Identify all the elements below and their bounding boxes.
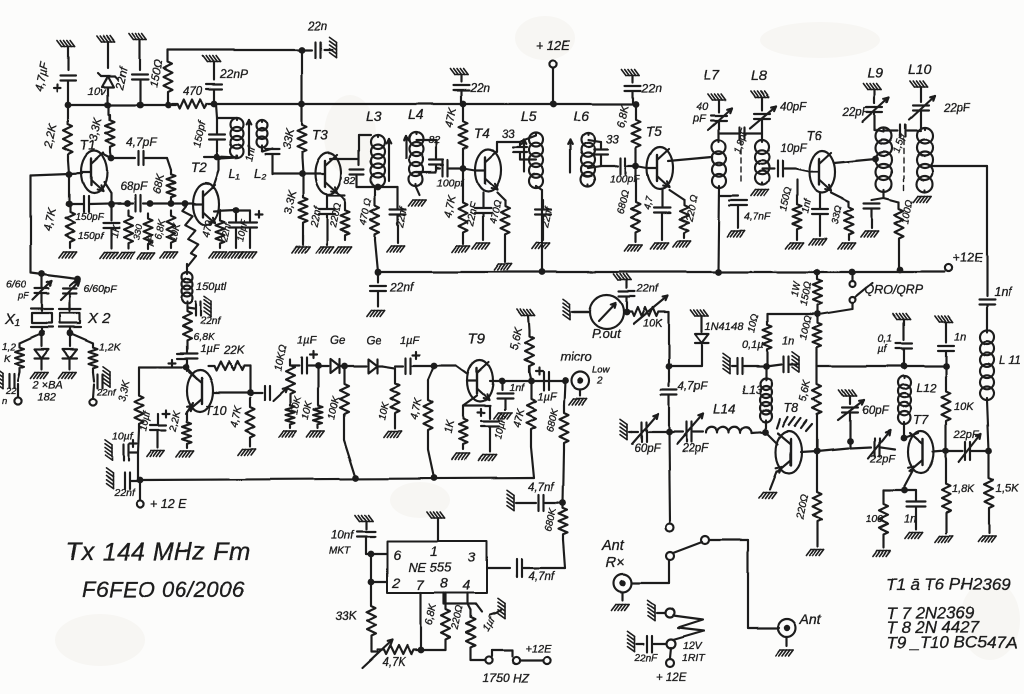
ground: [452, 246, 470, 252]
svg-text:R×: R×: [606, 555, 625, 571]
resistor 33K 555: [335, 582, 376, 652]
ground: [873, 540, 891, 556]
resistor 47K mic: [511, 381, 535, 478]
svg-text:60pF: 60pF: [862, 405, 889, 417]
IC NE555: [387, 518, 487, 593]
resistor 10K diag: [167, 206, 198, 266]
svg-text:100: 100: [866, 513, 884, 525]
svg-text:pF: pF: [692, 113, 707, 125]
ground: [839, 390, 857, 396]
svg-text:33Ω: 33Ω: [830, 205, 845, 226]
capacitor 22nf T3b: [390, 187, 410, 243]
svg-text:3,3K: 3,3K: [88, 116, 105, 143]
pot 12V RIT bottom: [667, 640, 676, 649]
meter Pout: [590, 295, 624, 341]
ground: [620, 419, 632, 439]
ground: [625, 245, 643, 251]
resistor 10Kb: [286, 395, 304, 428]
resistor 6.8K 555: [421, 593, 451, 650]
resistor 220ohm 555: [450, 604, 476, 655]
capacitor 1uF T10: [169, 343, 221, 371]
ground: [517, 309, 535, 315]
svg-text:1µF: 1µF: [200, 343, 220, 355]
svg-text:1,5p: 1,5p: [891, 133, 908, 155]
svg-text:6,8K: 6,8K: [423, 602, 439, 627]
svg-text:3,3K: 3,3K: [282, 189, 299, 216]
capacitor 33 L5: [513, 142, 527, 160]
svg-text:5,6K: 5,6K: [508, 325, 525, 350]
svg-text:4: 4: [463, 577, 471, 593]
svg-text:150pf: 150pf: [191, 119, 208, 148]
label L10: [908, 61, 932, 77]
terminal xa: [14, 384, 21, 405]
wire pin6: [368, 551, 387, 558]
svg-text:1nf: 1nf: [509, 382, 525, 394]
svg-text:4,7nf: 4,7nf: [528, 571, 555, 583]
resistor 1K: [108, 210, 132, 248]
svg-text:T9 _T10 BC547A: T9 _T10 BC547A: [886, 633, 1017, 652]
ground: [334, 247, 352, 253]
capacitor 22nf T10: [187, 296, 222, 327]
node T8 base: [752, 429, 769, 436]
arrow L3: [387, 139, 392, 181]
switch lever: [673, 536, 709, 553]
ground: [367, 310, 385, 316]
inductor L6: [573, 108, 595, 186]
dashed line L7L8: [740, 140, 742, 185]
wire T3 collector: [330, 158, 359, 160]
svg-text:6: 6: [393, 547, 401, 563]
svg-text:2: 2: [391, 575, 400, 591]
svg-text:1,8pF: 1,8pF: [732, 126, 751, 155]
wire tank bottom: [204, 154, 237, 161]
wire T6 collector: [834, 156, 879, 163]
svg-text:1µf: 1µf: [481, 615, 498, 634]
resistor 680K out: [543, 503, 567, 540]
svg-text:22nf: 22nf: [113, 487, 136, 499]
svg-text:6,8K: 6,8K: [615, 103, 632, 128]
trimmer 22pF pa: [669, 414, 709, 455]
svg-text:6/60pF: 6/60pF: [84, 283, 117, 295]
svg-text:8: 8: [440, 575, 448, 591]
wire T4 collector: [497, 142, 520, 152]
ground: [472, 243, 490, 249]
svg-text:4,7pF: 4,7pF: [678, 381, 708, 393]
ground: [751, 190, 769, 196]
svg-text:0,1µ: 0,1µ: [742, 339, 764, 351]
resistor 6.8K T5: [615, 103, 640, 169]
resistor 4.7K mod: [228, 398, 254, 446]
svg-text:1: 1: [430, 543, 438, 559]
svg-text:1,2K: 1,2K: [99, 341, 122, 353]
wire T8 out: [801, 448, 848, 452]
svg-text:40: 40: [696, 101, 709, 113]
resistor 470ohm T4: [488, 192, 509, 262]
capacitor 22nP: [206, 62, 248, 104]
wire T7 collector: [904, 433, 918, 438]
svg-text:10nf: 10nf: [331, 530, 355, 542]
svg-text:T3: T3: [312, 128, 328, 143]
resistor 10ohm: [746, 313, 814, 366]
BNC Ant: [776, 611, 822, 656]
ground: [57, 40, 75, 46]
svg-text:1N4148: 1N4148: [705, 321, 744, 333]
label +12E ant: [656, 648, 687, 684]
trimmer 6/60pF a: [6, 274, 52, 311]
ground: [316, 247, 334, 253]
capacitor 22nF T4: [464, 192, 491, 240]
svg-text:4,7K: 4,7K: [382, 657, 407, 669]
ground: [160, 252, 178, 258]
terminal +12E left: [136, 481, 187, 511]
svg-text:150Ω: 150Ω: [148, 59, 166, 89]
svg-text:1µF: 1µF: [297, 335, 317, 347]
wire rail 12v: [375, 267, 944, 276]
resistor 10K d: [377, 366, 399, 428]
svg-text:22K: 22K: [223, 345, 246, 357]
BNC Ant RX: [601, 538, 632, 610]
svg-text:10µf: 10µf: [112, 431, 134, 443]
svg-text:10KΩ: 10KΩ: [272, 344, 289, 373]
svg-text:10Ω: 10Ω: [746, 313, 761, 334]
svg-text:+ 12 E: + 12 E: [150, 497, 187, 511]
resistor 10K T7: [942, 366, 975, 454]
capacitor 82 T3: [344, 135, 364, 187]
wire xtal1 down: [39, 330, 46, 337]
capacitor 4.7nf top: [507, 482, 566, 511]
inductor L7: [712, 140, 726, 188]
svg-text:10K: 10K: [167, 221, 184, 243]
svg-text:10K: 10K: [954, 401, 974, 413]
resistor 100ohm pa: [798, 311, 821, 366]
resistor 1.2K b: [70, 333, 122, 372]
svg-text:Ge: Ge: [366, 335, 381, 347]
inductor L9: [875, 128, 892, 192]
svg-text:150Ω: 150Ω: [778, 186, 794, 212]
resistor 1K T9: [442, 414, 467, 450]
transistor T2: [191, 160, 219, 225]
svg-text:+12E: +12E: [525, 643, 552, 655]
ground: [209, 252, 227, 258]
svg-text:68pF: 68pF: [120, 179, 148, 193]
capacitor 1n T7b: [935, 316, 966, 369]
terminal +12E right: [944, 250, 983, 272]
capacitor 150pF a: [75, 196, 104, 223]
wire to T7: [881, 447, 895, 449]
svg-text:1n: 1n: [954, 331, 966, 343]
ground: [861, 231, 879, 237]
inductor L8: [755, 140, 769, 185]
svg-text:2,2K: 2,2K: [168, 409, 184, 434]
ground: [59, 372, 77, 378]
ground: [759, 471, 777, 498]
ground: [450, 69, 468, 75]
svg-text:4,7K: 4,7K: [228, 404, 244, 429]
transistor T5: [636, 124, 673, 189]
wire tank top: [216, 104, 237, 118]
transistor T1: [80, 138, 107, 193]
svg-text:100Ω: 100Ω: [900, 198, 916, 224]
svg-text:L9: L9: [868, 65, 884, 81]
wire T1 base: [31, 171, 82, 204]
resistor 6.8K T10: [183, 306, 216, 346]
svg-text:4,7pF: 4,7pF: [126, 135, 157, 149]
svg-text:3,3K: 3,3K: [116, 378, 132, 403]
capacitor 22nf osc: [219, 210, 243, 248]
wire T1 collector: [103, 154, 135, 161]
transistor T4: [463, 126, 515, 191]
capacitor 10uF T9: [478, 410, 510, 453]
resistor 150ohm: [148, 50, 172, 105]
resistor 330: [131, 213, 156, 249]
svg-text:4,7K: 4,7K: [408, 396, 424, 421]
svg-text:L7: L7: [704, 67, 721, 83]
resistor 5.6K T8: [797, 366, 821, 454]
svg-text:220Ω: 220Ω: [794, 493, 811, 521]
resistor 150ohm 1W: [789, 274, 821, 318]
capacitor 1uF b: [395, 335, 437, 374]
capacitor 10uF osc: [235, 210, 262, 248]
list T1-T6: [886, 575, 1011, 594]
svg-text:1n: 1n: [782, 335, 794, 347]
capacitor 1uF a: [297, 335, 321, 374]
capacitor 0.1uF T7: [878, 314, 912, 369]
node pa: [666, 429, 673, 436]
svg-text:T5: T5: [646, 124, 662, 139]
title Tx 144 MHz Fm: [66, 538, 250, 566]
svg-text:5,6K: 5,6K: [797, 378, 813, 403]
resistor 220ohm T8: [794, 451, 822, 530]
svg-text:T4: T4: [474, 126, 490, 141]
resistor 2.2K: [43, 105, 73, 174]
trimmer 60pF pa: [631, 414, 666, 455]
wire osc row: [66, 200, 193, 208]
wire T3 base: [272, 171, 315, 178]
trimmer 6/60pF b: [61, 279, 117, 311]
transistor T9: [467, 331, 493, 402]
capacitor 1nf right: [979, 285, 1013, 330]
svg-text:Ant: Ant: [601, 538, 625, 554]
ground: [225, 252, 243, 258]
svg-text:L3: L3: [366, 108, 382, 124]
svg-text:68K: 68K: [151, 172, 167, 194]
ground: [978, 514, 996, 542]
svg-text:pF: pF: [17, 291, 30, 302]
pot 12V RIT zigzag: [673, 616, 704, 640]
wire rx: [632, 561, 669, 583]
capacitor 10uF mod: [138, 410, 169, 448]
resistor 470ohm T3: [358, 187, 379, 272]
capacitor 22n top: [302, 21, 332, 58]
ground: [129, 34, 147, 40]
svg-text:2 ×BA: 2 ×BA: [32, 379, 63, 391]
svg-text:1,8K: 1,8K: [952, 483, 975, 495]
ground: [809, 239, 827, 245]
capacitor 10pF: [762, 143, 807, 177]
svg-text:22n: 22n: [641, 81, 662, 95]
capacitor 22nf rail: [370, 272, 415, 306]
capacitor 150pF b: [78, 204, 119, 248]
ground: [910, 81, 928, 87]
label L9: [868, 65, 884, 81]
capacitor 22nF ant: [627, 631, 666, 664]
svg-text:1,2: 1,2: [2, 342, 16, 353]
capacitor 22n xa: [0, 368, 20, 407]
svg-text:470: 470: [200, 219, 215, 239]
transistor T6: [795, 128, 835, 193]
ground: [137, 253, 155, 259]
svg-text:4,7nF: 4,7nF: [744, 211, 771, 223]
resistor 2.2K mod: [168, 409, 192, 448]
ground: [622, 69, 640, 75]
svg-text:L₂: L₂: [254, 167, 266, 181]
list T7: [886, 604, 975, 623]
title F6FEO: [82, 577, 245, 602]
svg-text:+ 12E: + 12E: [536, 38, 571, 53]
capacitor 22nf xb: [93, 366, 117, 398]
transistor T7: [908, 412, 934, 473]
wire T2 emitter: [214, 207, 239, 214]
ground: [59, 252, 77, 258]
resistor 100 T7: [866, 490, 889, 540]
svg-text:X₁: X₁: [4, 311, 20, 328]
resistor 47K: [443, 104, 467, 171]
capacitor 1n T7e: [904, 490, 925, 525]
svg-text:680K: 680K: [543, 506, 559, 532]
resistor 3.3K T3: [282, 174, 307, 245]
svg-text:22pF: 22pF: [943, 103, 971, 115]
svg-text:22nf: 22nf: [114, 64, 131, 91]
svg-text:n: n: [2, 396, 7, 407]
inductor L3: [357, 108, 398, 190]
diode 1N4148: [669, 310, 744, 366]
wire rail y104: [214, 103, 638, 105]
ground: [651, 243, 669, 249]
svg-text:T1 ā T6 PH2369: T1 ā T6 PH2369: [886, 575, 1011, 594]
transistor T10: [183, 364, 227, 418]
capacitor 10uf left: [105, 431, 138, 461]
label 1750: [483, 671, 530, 685]
capacitor 1.5p: [884, 125, 921, 155]
svg-text:22n: 22n: [469, 81, 490, 95]
svg-text:22n: 22n: [307, 21, 327, 33]
inductor L4: [408, 106, 424, 186]
resistor 3.3K mod: [116, 367, 184, 453]
svg-text:QRO/QRP: QRO/QRP: [864, 283, 924, 297]
ground: [147, 451, 165, 457]
diode Ge b: [344, 335, 382, 373]
wire T1 emitter: [104, 182, 114, 207]
wire T5 collector: [668, 157, 712, 161]
svg-text:1n: 1n: [904, 513, 916, 525]
svg-text:33K: 33K: [281, 127, 297, 151]
wire xtal top: [31, 271, 81, 283]
wire xtal2 down: [67, 330, 74, 337]
svg-text:82: 82: [428, 134, 440, 146]
resistor 5.6K: [508, 315, 533, 381]
wire L7 rail: [718, 188, 719, 272]
ground: [914, 196, 932, 202]
ground: [100, 252, 118, 258]
hatch T8: [777, 417, 812, 431]
ground: [238, 449, 256, 455]
resistor 1.2K a: [2, 333, 42, 372]
svg-text:22pF: 22pF: [842, 107, 870, 119]
svg-text:F6FEO 06/2006: F6FEO 06/2006: [82, 577, 245, 602]
svg-text:6/60: 6/60: [6, 279, 27, 291]
svg-text:47K: 47K: [443, 106, 459, 128]
inductor L11: [980, 330, 1020, 400]
pot 12V RIT top: [648, 600, 675, 620]
ground: [31, 372, 49, 378]
wire tx: [666, 432, 674, 531]
svg-text:Ge: Ge: [330, 335, 345, 347]
svg-text:T8: T8: [784, 401, 799, 415]
switch pivot: [666, 552, 674, 560]
wire T2 collector up: [213, 158, 237, 188]
svg-text:22nf: 22nf: [636, 283, 659, 295]
capacitor 22n a: [453, 75, 490, 107]
ground: [452, 454, 470, 460]
capacitor 1uF mic: [536, 368, 569, 404]
svg-text:1nf: 1nf: [800, 198, 814, 215]
svg-text:4,7µF: 4,7µF: [33, 60, 51, 92]
svg-text:22nf: 22nf: [96, 387, 117, 398]
svg-text:1µF: 1µF: [400, 335, 420, 347]
arrow L4: [404, 136, 409, 158]
varres 10K: [627, 296, 668, 330]
wire pin2: [368, 554, 387, 585]
svg-text:680K: 680K: [545, 406, 561, 432]
capacitor 4.7nf out: [487, 559, 565, 583]
resistor 470: [172, 86, 217, 109]
diode BA a: [35, 334, 49, 369]
svg-text:X 2: X 2: [87, 310, 111, 327]
svg-text:40pF: 40pF: [780, 101, 807, 113]
pushbutton: [471, 643, 552, 664]
resistor 3.3K: [88, 105, 114, 158]
list T8: [886, 618, 980, 637]
wire left vertical: [30, 175, 32, 273]
svg-text:Low: Low: [592, 365, 611, 376]
svg-text:2,2K: 2,2K: [43, 122, 60, 150]
arrow L5: [522, 140, 527, 172]
wire T10 out: [213, 386, 287, 401]
ground: [614, 274, 632, 280]
ground: [239, 252, 257, 258]
svg-text:L4: L4: [408, 106, 424, 122]
resistor 100ohm L9: [884, 198, 916, 268]
wire T3 emitter: [327, 193, 345, 206]
ground: [563, 299, 589, 319]
resistor 100K: [326, 366, 356, 478]
svg-text:µf: µf: [878, 343, 888, 355]
ground: [569, 390, 587, 405]
capacitor L9 out: [864, 192, 884, 228]
diode BA b: [63, 334, 77, 369]
ground: [307, 431, 325, 437]
resistor 4.7K: [42, 206, 74, 248]
svg-text:T7: T7: [913, 412, 929, 427]
svg-text:22nF: 22nF: [633, 653, 658, 664]
ground: [708, 94, 726, 100]
svg-text:T2: T2: [191, 160, 207, 175]
svg-text:L₁: L₁: [229, 167, 240, 181]
svg-text:22nf: 22nf: [389, 280, 415, 294]
switch QRO/QRP: [821, 272, 924, 314]
svg-text:22nf: 22nf: [308, 205, 324, 230]
svg-text:1nf: 1nf: [994, 285, 1013, 299]
